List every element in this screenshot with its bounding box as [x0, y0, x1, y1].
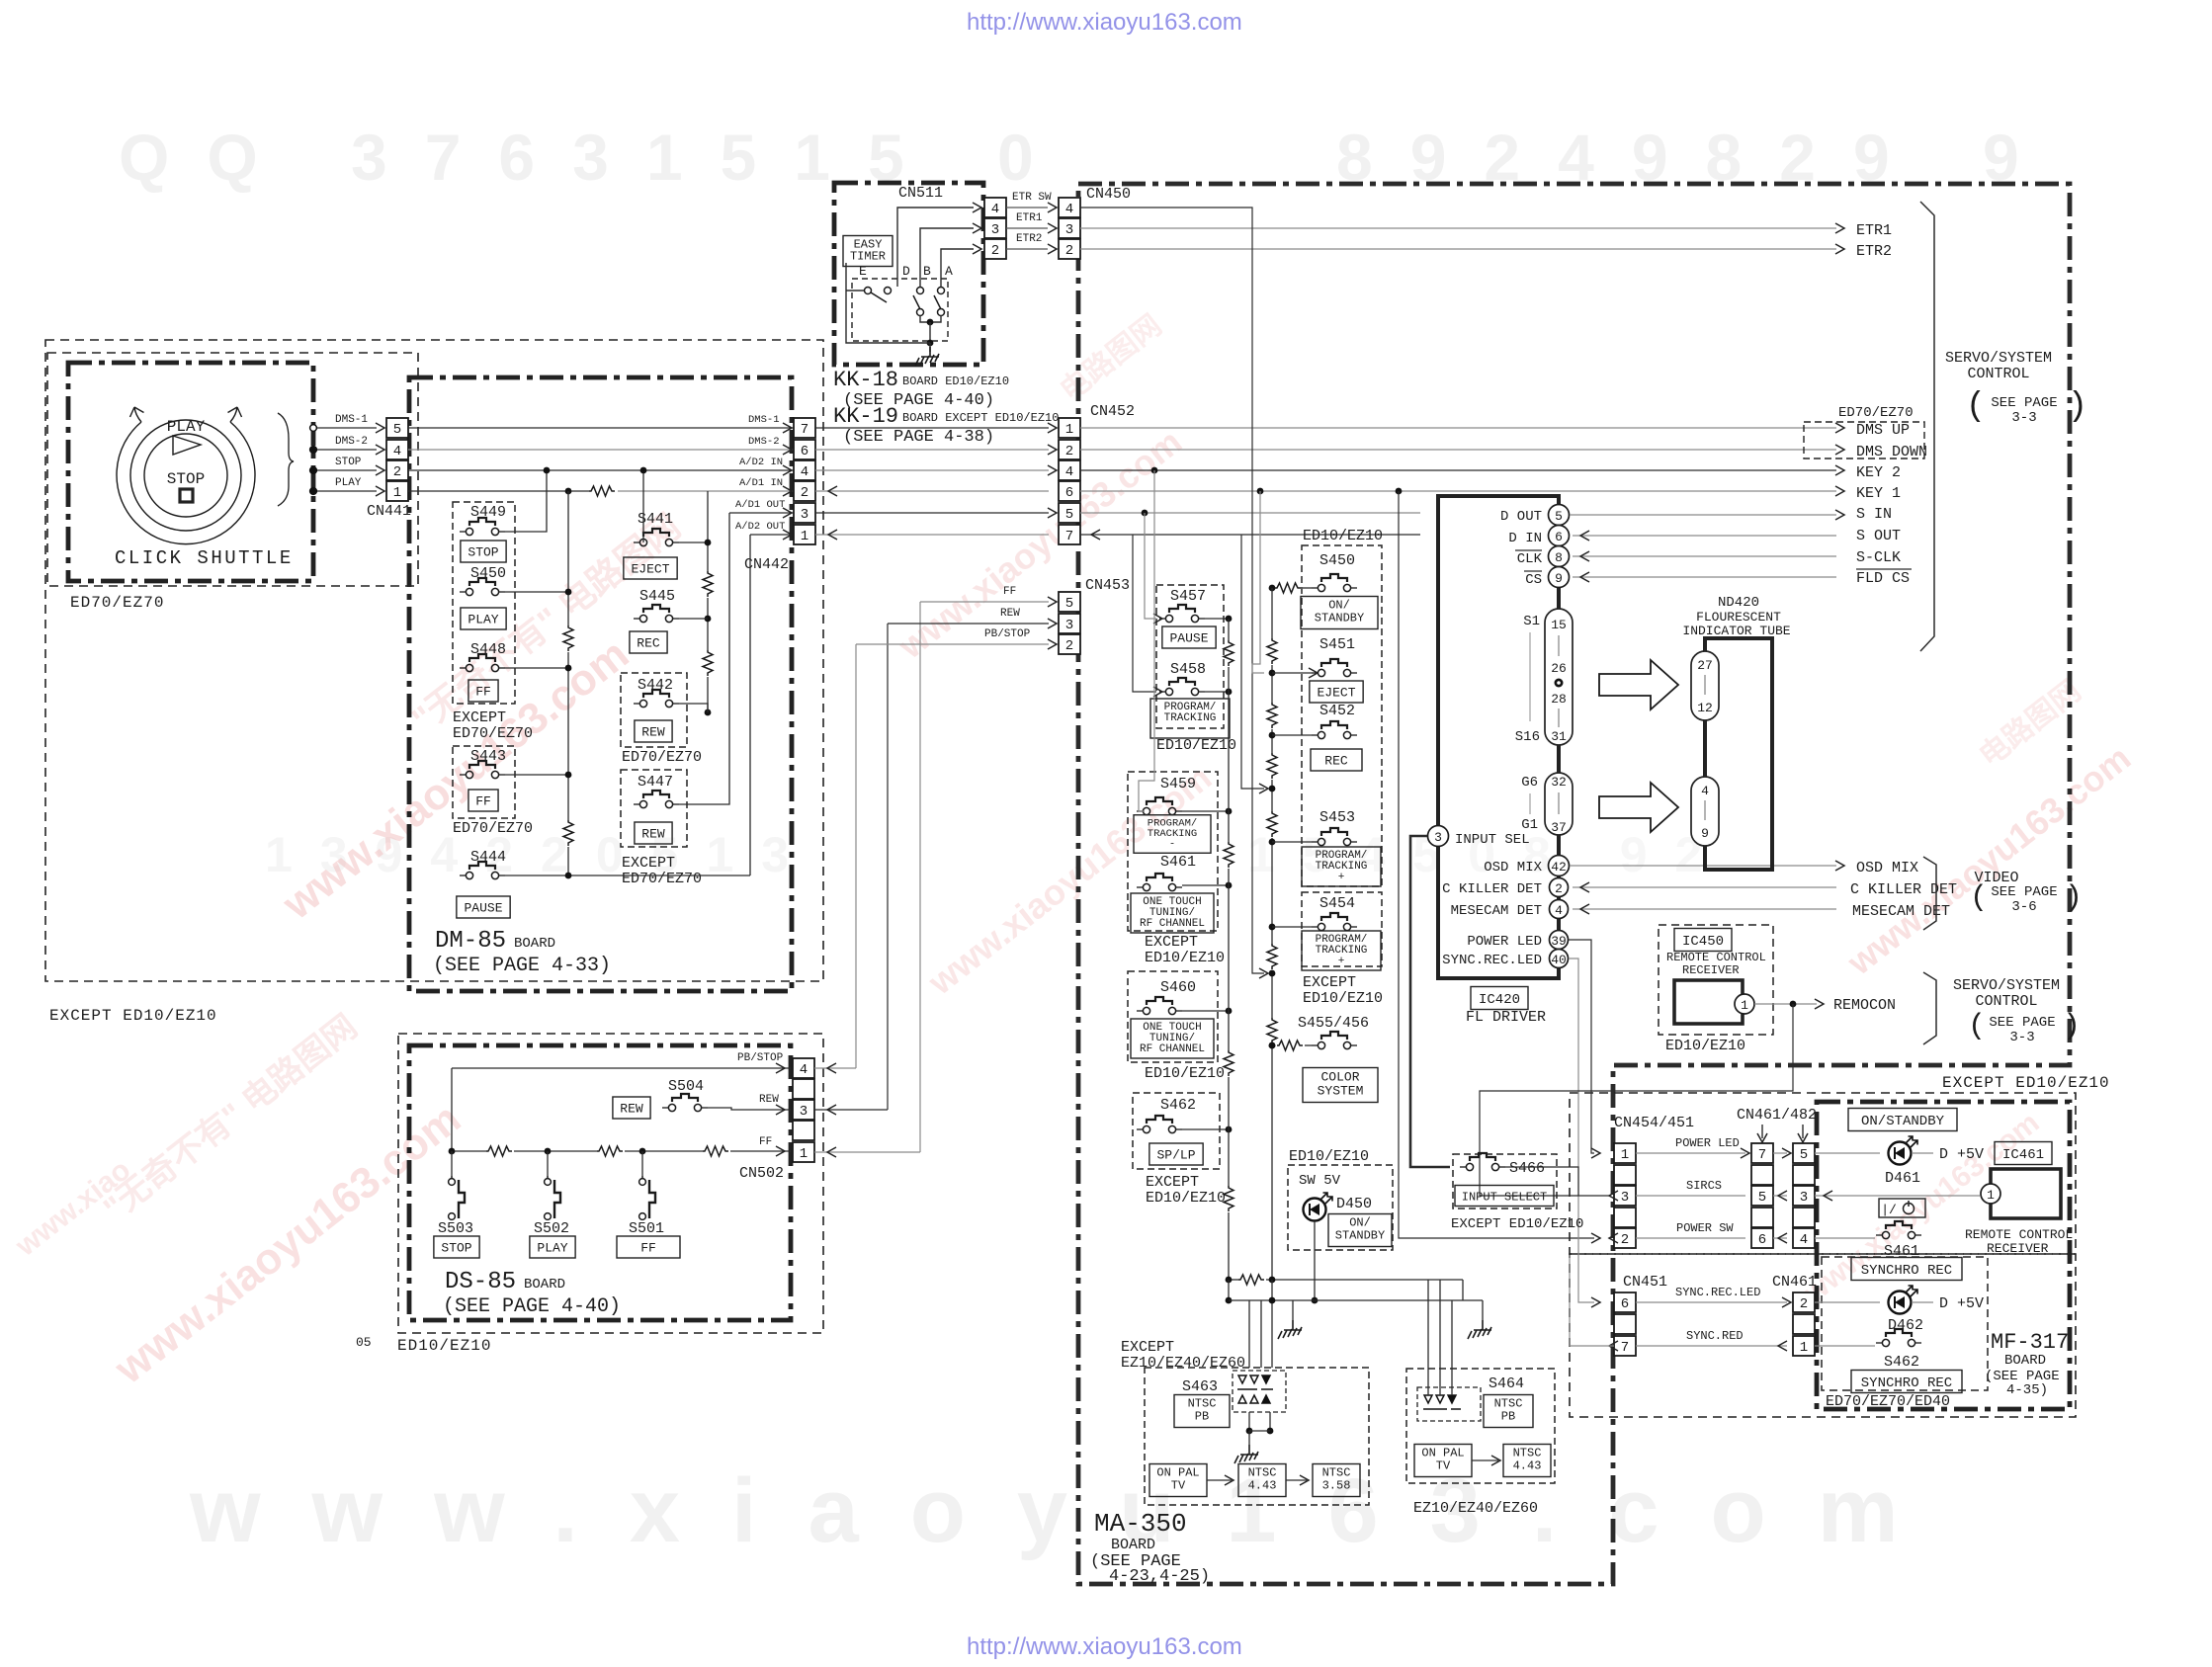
junction — [1142, 510, 1149, 517]
svg-text:S460: S460 — [1160, 979, 1196, 996]
junction — [1269, 1042, 1276, 1049]
svg-text:3: 3 — [1065, 618, 1073, 633]
svg-text:NTSC: NTSC — [1188, 1397, 1217, 1411]
svg-text:1: 1 — [1065, 422, 1073, 438]
svg-text:S448: S448 — [470, 641, 506, 658]
wire ETR SW — [1006, 207, 1048, 208]
svg-text:ETR1: ETR1 — [1016, 212, 1043, 224]
svg-text:4-23,4-25): 4-23,4-25) — [1109, 1567, 1210, 1586]
svg-text:): ) — [2068, 388, 2087, 426]
wire ETR1 — [1006, 227, 1048, 229]
svg-text:8: 8 — [1555, 550, 1563, 565]
watermark pink stamps — [273, 629, 638, 929]
junction — [310, 488, 317, 495]
junction — [1269, 786, 1276, 792]
svg-text:1: 1 — [1800, 1340, 1808, 1356]
svg-text:ETR1: ETR1 — [1856, 222, 1892, 239]
svg-text:ED10/EZ10: ED10/EZ10 — [1146, 1190, 1226, 1207]
svg-text:STANDBY: STANDBY — [1315, 612, 1364, 625]
svg-text:EXCEPT ED10/EZ10: EXCEPT ED10/EZ10 — [49, 1007, 217, 1025]
svg-text:S461: S461 — [1160, 854, 1196, 871]
wire — [1439, 1280, 1441, 1395]
svg-text:STOP: STOP — [335, 457, 362, 468]
label — [843, 236, 893, 267]
svg-text:FLOURESCENT: FLOURESCENT — [1696, 610, 1781, 625]
wire — [920, 228, 974, 287]
svg-text:1: 1 — [1741, 998, 1748, 1013]
junction — [1269, 924, 1276, 931]
svg-text:S503: S503 — [438, 1220, 473, 1237]
dashed group S449/S450/S448 — [453, 502, 515, 704]
svg-text:DMS-1: DMS-1 — [748, 414, 780, 426]
svg-text:-: - — [1187, 723, 1194, 735]
wire A/D1 IN row with resistor — [408, 490, 589, 492]
svg-text:MF-317: MF-317 — [1991, 1330, 2069, 1355]
wire DMS-2 — [317, 449, 377, 451]
wire SYNC.REC.LED — [1569, 959, 1594, 1302]
switch S460 — [1137, 997, 1182, 1015]
svg-text:OSD MIX: OSD MIX — [1484, 860, 1542, 875]
svg-text:SYNC.REC.LED: SYNC.REC.LED — [1675, 1286, 1760, 1299]
ground — [1234, 1445, 1258, 1463]
resistor — [563, 820, 573, 846]
svg-text:2: 2 — [991, 243, 999, 259]
svg-text:REC: REC — [637, 636, 660, 651]
svg-text:STOP: STOP — [468, 545, 498, 560]
junction — [310, 467, 317, 474]
svg-text:PLAY: PLAY — [468, 613, 498, 627]
IC450 dashed box — [1659, 925, 1773, 1035]
svg-text:S OUT: S OUT — [1856, 528, 1901, 544]
svg-text:3: 3 — [1434, 830, 1442, 845]
svg-text:FLD CS: FLD CS — [1856, 570, 1910, 587]
junction — [927, 319, 934, 326]
wire S448 — [505, 667, 568, 669]
label STOP — [434, 1236, 479, 1258]
svg-text:BOARD: BOARD — [1111, 1537, 1155, 1553]
svg-text:A/D2 OUT: A/D2 OUT — [735, 521, 785, 533]
label ONE TOUCH TUNING/RF CHANNEL — [1131, 893, 1214, 933]
board outline: right dashed box EXCEPT ED10/EZ10 — [1570, 1093, 2076, 1254]
svg-text:S IN: S IN — [1856, 506, 1892, 523]
svg-text:32: 32 — [1551, 775, 1567, 790]
svg-text:4-35): 4-35) — [2006, 1382, 2048, 1398]
svg-text:DM-85: DM-85 — [435, 928, 506, 955]
svg-text:A/D1 IN: A/D1 IN — [739, 477, 783, 489]
wire A/D2 OUT drop — [749, 535, 751, 875]
junction — [1226, 1277, 1233, 1284]
bracket servo lower — [1923, 972, 1936, 1044]
svg-text:12: 12 — [1697, 701, 1713, 715]
svg-text:NTSC: NTSC — [1513, 1447, 1542, 1460]
wire STOP — [317, 469, 377, 471]
svg-text:S451: S451 — [1319, 636, 1355, 653]
junction — [310, 447, 317, 454]
svg-text:EXCEPT ED10/EZ10: EXCEPT ED10/EZ10 — [1942, 1074, 2110, 1092]
svg-text:39: 39 — [1551, 934, 1567, 949]
pin 6 IC420 — [1549, 526, 1570, 546]
svg-text:6: 6 — [1065, 485, 1073, 501]
junction — [1257, 488, 1264, 495]
switch S443 — [460, 761, 505, 779]
wire — [1269, 1412, 1271, 1431]
svg-text:4: 4 — [1701, 784, 1709, 798]
switch S449 — [460, 518, 505, 536]
svg-text:DS-85: DS-85 — [445, 1269, 516, 1295]
svg-text:ED70/EZ70: ED70/EZ70 — [1838, 405, 1914, 421]
svg-text:3.58: 3.58 — [1322, 1479, 1351, 1493]
ground — [1468, 1320, 1491, 1339]
junction — [1790, 1001, 1797, 1008]
junction — [1269, 732, 1276, 739]
svg-text:BOARD: BOARD — [524, 1277, 565, 1292]
svg-text:ED10/EZ10: ED10/EZ10 — [397, 1337, 491, 1355]
svg-text:1: 1 — [1621, 1147, 1629, 1163]
svg-text:SYNC.RED: SYNC.RED — [1686, 1329, 1744, 1343]
label FF — [617, 1236, 680, 1258]
pin 4 IC420 — [1550, 900, 1569, 919]
wire S442 — [679, 704, 708, 712]
svg-text:BOARD: BOARD — [514, 936, 555, 952]
svg-text:CN451: CN451 — [1623, 1274, 1667, 1291]
svg-text:(: ( — [1970, 881, 1988, 915]
svg-text:28: 28 — [1551, 692, 1567, 707]
svg-text:ED70/EZ70: ED70/EZ70 — [622, 749, 702, 766]
overline CLK — [1515, 549, 1542, 551]
svg-text:1: 1 — [1987, 1188, 1995, 1203]
svg-text:CN461/482: CN461/482 — [1737, 1107, 1817, 1124]
svg-text:2: 2 — [1621, 1232, 1629, 1248]
wire A/D1 OUT row — [729, 512, 794, 514]
wire POWER LED — [1569, 940, 1594, 1153]
svg-text:PB: PB — [1501, 1410, 1515, 1424]
label PROGRAM/TRACKING+ — [1302, 931, 1381, 970]
bridge connections — [1248, 1361, 1250, 1368]
dashed group S454 — [1302, 892, 1382, 966]
wire REMOCON — [1754, 1003, 1817, 1005]
svg-text:S450: S450 — [1319, 552, 1355, 569]
svg-text:4.43: 4.43 — [1248, 1479, 1277, 1493]
arrow symbol — [1599, 660, 1678, 709]
junction — [1226, 808, 1233, 815]
IC420 FL DRIVER body — [1438, 496, 1559, 978]
svg-text:3-3: 3-3 — [2011, 410, 2036, 426]
junction — [1226, 1126, 1233, 1133]
board outline: MA-350 dash-dot polygon — [1078, 184, 2070, 1584]
junction — [1269, 670, 1276, 677]
wire — [1451, 1300, 1453, 1395]
board outline: KK-18 dash-dot box — [834, 183, 983, 365]
label NTSC PB — [1484, 1395, 1533, 1428]
wire remocon branch to SIRCS — [1480, 1004, 1793, 1196]
svg-text:OSD MIX: OSD MIX — [1856, 860, 1918, 876]
svg-text:RECEIVER: RECEIVER — [1682, 963, 1740, 977]
wire rail2 — [1229, 1299, 1443, 1301]
label NTSC 4.43 — [1238, 1464, 1286, 1497]
svg-text:ETR SW: ETR SW — [1012, 192, 1052, 204]
svg-text:(SEE PAGE 4-33): (SEE PAGE 4-33) — [433, 955, 611, 977]
junction — [705, 540, 712, 546]
wire to D462 — [1815, 1301, 1880, 1303]
svg-text:6: 6 — [1758, 1232, 1766, 1248]
wire pin7 to S458 — [1133, 535, 1156, 692]
junction — [1269, 1042, 1276, 1049]
pin 2 IC420 — [1550, 878, 1569, 897]
svg-text:DMS UP: DMS UP — [1856, 422, 1910, 439]
svg-text:SYNCHRO REC: SYNCHRO REC — [1861, 1375, 1952, 1391]
wire SYNC.RED row — [1636, 1345, 1787, 1347]
svg-text:7: 7 — [1758, 1147, 1766, 1163]
svg-text:ON/STANDBY: ON/STANDBY — [1861, 1114, 1945, 1129]
wire A/D1 OUT to CN452 — [815, 512, 1049, 514]
svg-text:S1: S1 — [1523, 614, 1540, 629]
svg-text:CN450: CN450 — [1086, 186, 1131, 203]
board outline: click shuttle dash-dot box ED70/EZ70 — [68, 363, 313, 581]
svg-text:2: 2 — [1065, 243, 1073, 259]
pin 8 IC420 — [1549, 546, 1570, 567]
svg-text:3-6: 3-6 — [2011, 899, 2036, 915]
label INPUT SELECT — [1455, 1186, 1554, 1207]
svg-text:CN453: CN453 — [1085, 577, 1130, 594]
svg-text:S459: S459 — [1160, 776, 1196, 792]
svg-text:S453: S453 — [1319, 809, 1355, 826]
label ONE TOUCH TUNING/RF CHANNEL — [1131, 1019, 1214, 1058]
switch S444 — [460, 862, 505, 879]
svg-text:S462: S462 — [1884, 1354, 1919, 1371]
svg-text:CONTROL: CONTROL — [1967, 366, 2029, 382]
svg-text:EXCEPT: EXCEPT — [1121, 1339, 1174, 1356]
svg-text:PB: PB — [1195, 1410, 1209, 1424]
svg-text:4: 4 — [1065, 202, 1073, 217]
junction — [639, 1148, 646, 1155]
svg-text:SEE PAGE: SEE PAGE — [1989, 1015, 2055, 1031]
play triangle — [173, 436, 201, 455]
junction — [1246, 1428, 1253, 1435]
svg-text:ED10/EZ10: ED10/EZ10 — [1303, 528, 1383, 544]
junction — [1151, 467, 1158, 474]
wire DMS-2 to CN452 — [815, 449, 1049, 451]
switch S501 — [639, 1176, 655, 1219]
switch S455/456 — [1312, 1032, 1357, 1049]
wire POWER SW — [1399, 491, 1594, 1238]
wire PB/STOP rail — [452, 1067, 791, 1069]
svg-text:REW: REW — [759, 1094, 779, 1106]
wire left bus — [451, 1068, 453, 1151]
wire FLD CS — [1573, 576, 1836, 578]
wire PLAY — [317, 490, 377, 492]
svg-text:S501: S501 — [629, 1220, 664, 1237]
svg-text:http://www.xiaoyu163.com: http://www.xiaoyu163.com — [967, 1633, 1242, 1660]
svg-text:REW: REW — [1000, 608, 1020, 620]
dashed group S457/S458 — [1156, 585, 1224, 728]
horizontal rails lower — [1229, 1279, 1238, 1281]
wire MESECAM DET — [1573, 908, 1836, 910]
resistor — [703, 571, 713, 597]
switch S461 — [1876, 1221, 1921, 1239]
svg-text:D OUT: D OUT — [1500, 509, 1542, 525]
svg-text:+: + — [1338, 872, 1345, 883]
svg-text:31: 31 — [1551, 729, 1567, 744]
switch S503 — [449, 1176, 465, 1219]
svg-text:40: 40 — [1551, 953, 1567, 967]
wire FF (CN453 pin5) — [920, 601, 1049, 603]
svg-text:6: 6 — [1621, 1296, 1629, 1312]
switch S447 — [634, 791, 679, 808]
svg-text:ON/: ON/ — [1349, 1216, 1371, 1230]
LED D462 — [1889, 1286, 1918, 1314]
svg-text:D: D — [902, 264, 910, 279]
svg-text:NTSC: NTSC — [1494, 1397, 1523, 1411]
IC461 body — [1991, 1169, 2061, 1218]
svg-text:D462: D462 — [1888, 1317, 1923, 1334]
svg-text:FF: FF — [1003, 586, 1016, 598]
svg-text:ED10/EZ10: ED10/EZ10 — [1289, 1148, 1369, 1165]
left column bus — [1205, 618, 1229, 620]
svg-text:CN452: CN452 — [1090, 403, 1135, 420]
svg-text:IC450: IC450 — [1682, 934, 1724, 950]
svg-text:BOARD ED10/EZ10: BOARD ED10/EZ10 — [902, 375, 1009, 388]
label NTSC PB — [1174, 1395, 1230, 1428]
dashed box S466 — [1453, 1154, 1557, 1209]
resistor — [1238, 1275, 1264, 1285]
resistor — [1267, 703, 1277, 728]
LED D450 — [1304, 1193, 1333, 1221]
taps to switches — [1272, 672, 1312, 674]
switch S461 MA-350 — [1137, 874, 1182, 891]
junction — [565, 589, 572, 596]
svg-text:2: 2 — [801, 485, 808, 501]
svg-text:ETR2: ETR2 — [1856, 243, 1892, 260]
dashed group S462 — [1133, 1093, 1220, 1169]
svg-text:S452: S452 — [1319, 703, 1355, 719]
svg-text:6: 6 — [801, 444, 808, 459]
label EJECT — [1310, 681, 1363, 703]
junction — [1269, 839, 1276, 846]
junction — [1312, 1297, 1319, 1304]
svg-text:1: 1 — [393, 485, 401, 501]
grounds — [1292, 1300, 1294, 1320]
svg-text:S457: S457 — [1170, 588, 1206, 605]
pin group 32-37 — [1545, 773, 1573, 835]
wire S445 — [679, 618, 708, 620]
wire A/D2 OUT row — [750, 534, 794, 536]
svg-text:RF CHANNEL: RF CHANNEL — [1140, 918, 1205, 930]
label — [1995, 1142, 2052, 1165]
label PROGRAM/TRACKING- — [1150, 699, 1230, 738]
svg-text:POWER LED: POWER LED — [1467, 934, 1542, 950]
wire SIRCS to IC461 — [1815, 1195, 1980, 1197]
label ON/STANDBY — [1301, 597, 1378, 629]
svg-text:TV: TV — [1436, 1459, 1451, 1473]
junction — [1269, 1297, 1276, 1304]
wire DMS-2 row — [408, 449, 794, 451]
tube body — [1705, 638, 1772, 870]
svg-text:4: 4 — [393, 444, 401, 459]
svg-text:MA-350: MA-350 — [1094, 1509, 1187, 1539]
label ON PAL TV — [1414, 1445, 1472, 1477]
junction — [1269, 585, 1276, 592]
svg-text:5: 5 — [1758, 1190, 1766, 1206]
svg-text:BOARD: BOARD — [2004, 1353, 2046, 1369]
wire sync red — [1570, 1255, 1614, 1346]
wire to S453 node — [1241, 535, 1264, 789]
svg-text:5: 5 — [1065, 507, 1073, 523]
switch S458 — [1159, 678, 1205, 696]
junction — [545, 1148, 552, 1155]
wire easy timer common — [920, 315, 941, 322]
junction — [1269, 970, 1276, 977]
wire — [1248, 1412, 1250, 1431]
resistor — [1224, 842, 1234, 868]
wire S-CLK — [1573, 555, 1836, 557]
svg-text:): ) — [2065, 881, 2083, 915]
svg-text:SW 5V: SW 5V — [1299, 1173, 1341, 1189]
label REW — [635, 720, 672, 742]
wire POWER SW — [1815, 1237, 1875, 1239]
svg-text:C KILLER DET: C KILLER DET — [1442, 881, 1542, 897]
svg-text:FF: FF — [640, 1241, 656, 1256]
label EJECT — [624, 557, 677, 579]
svg-text:5: 5 — [1065, 596, 1073, 612]
svg-text:3: 3 — [1621, 1190, 1629, 1206]
wire ETR SW down — [1080, 208, 1264, 973]
svg-text:DMS-1: DMS-1 — [335, 414, 368, 426]
label SYNCHRO REC — [1851, 1258, 1962, 1281]
wire OSD MIX — [1570, 865, 1836, 867]
junction — [1396, 488, 1403, 495]
wire S444 to A/D2 OUT — [505, 875, 750, 876]
IC450 body — [1674, 980, 1743, 1024]
svg-text:5: 5 — [1800, 1147, 1808, 1163]
svg-text:4: 4 — [800, 1062, 808, 1078]
svg-text:REMOTE CONTROL: REMOTE CONTROL — [1965, 1227, 2073, 1242]
svg-text:S449: S449 — [470, 504, 506, 521]
board outline: outer dashed box EXCEPT ED10/EZ10 (left) — [45, 340, 823, 981]
svg-text:ETR2: ETR2 — [1016, 233, 1042, 245]
svg-text:SEE PAGE: SEE PAGE — [1991, 884, 2057, 900]
wire — [1260, 1300, 1262, 1368]
svg-text:RECEIVER: RECEIVER — [1987, 1241, 2049, 1256]
wire PB/STOP into pin4 — [814, 1067, 856, 1069]
svg-text:ON PAL: ON PAL — [1156, 1466, 1199, 1480]
switch S459 — [1137, 797, 1182, 815]
junction — [1269, 1277, 1276, 1284]
wire S443 — [505, 774, 568, 776]
wire — [846, 263, 930, 343]
svg-text:G6: G6 — [1521, 775, 1538, 791]
wire SYNC.REC.LED row — [1636, 1301, 1787, 1303]
svg-text:ND420: ND420 — [1718, 595, 1759, 611]
connector CN442 — [794, 418, 815, 438]
svg-text:EXCEPT: EXCEPT — [1146, 1174, 1199, 1191]
label NTSC 3.58 — [1313, 1464, 1360, 1497]
wire S466 out — [1505, 1167, 1578, 1196]
svg-text:): ) — [2063, 1010, 2081, 1043]
svg-text:ED10/EZ10: ED10/EZ10 — [1303, 990, 1383, 1007]
dashed group S460 — [1128, 971, 1218, 1062]
switch D (easy timer) — [913, 288, 924, 316]
wire C KILLER DET — [1573, 886, 1836, 888]
svg-text:EXCEPT: EXCEPT — [1145, 934, 1198, 951]
board outline: MF-317 dash-dot box — [1817, 1102, 2070, 1409]
svg-text:B: B — [923, 264, 931, 279]
svg-text:5: 5 — [393, 422, 401, 438]
resistor — [1277, 1041, 1303, 1050]
svg-text:2: 2 — [1800, 1296, 1808, 1312]
wire DMS-1 — [317, 427, 377, 429]
svg-text:STANDBY: STANDBY — [1335, 1229, 1385, 1243]
pin 9 IC420 — [1549, 567, 1570, 588]
